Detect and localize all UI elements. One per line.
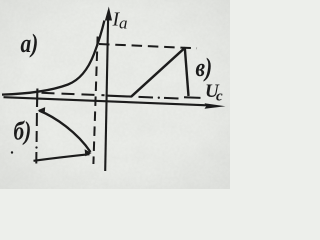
axis Uc horizontal line xyxy=(4,97,208,105)
sawtooth v) falling edge xyxy=(185,48,189,96)
tick at curve a start of dashes xyxy=(36,89,39,108)
sawtooth v) baseline solid xyxy=(106,96,132,97)
label Uc xyxy=(205,81,223,105)
label v) xyxy=(196,54,213,82)
stray dot bottom left xyxy=(11,151,13,153)
scan grain xyxy=(0,0,230,189)
svg-text:в): в) xyxy=(196,54,213,82)
sawtooth v) rising ramp xyxy=(131,48,185,97)
paper mottling xyxy=(0,0,230,189)
dashed horizontal line (peak level, top right) xyxy=(99,44,197,48)
label Ia xyxy=(112,9,128,33)
dashed horizontal line (left, above Uc axis) xyxy=(42,93,105,96)
sawtooth v) baseline dash-dot xyxy=(139,97,201,99)
axis Ia vertical line xyxy=(105,18,108,171)
dashed vertical line (ignition voltage) xyxy=(93,37,97,165)
curve b) bottom line xyxy=(34,154,90,161)
label b) xyxy=(14,118,32,146)
svg-text:a: a xyxy=(119,14,128,33)
label a) xyxy=(21,30,39,58)
svg-text:а): а) xyxy=(21,30,39,58)
curve b) right tip xyxy=(85,149,92,156)
axis Uc arrowhead xyxy=(205,103,226,109)
dash-dot vertical line of b) xyxy=(35,113,37,164)
axis Ia arrowhead xyxy=(105,7,112,21)
curve b) upper arc xyxy=(39,111,91,153)
svg-text:б): б) xyxy=(14,118,32,146)
curve b) arrowhead left xyxy=(38,107,46,113)
svg-text:c: c xyxy=(216,89,223,105)
curve a) exponential characteristic xyxy=(2,21,104,95)
